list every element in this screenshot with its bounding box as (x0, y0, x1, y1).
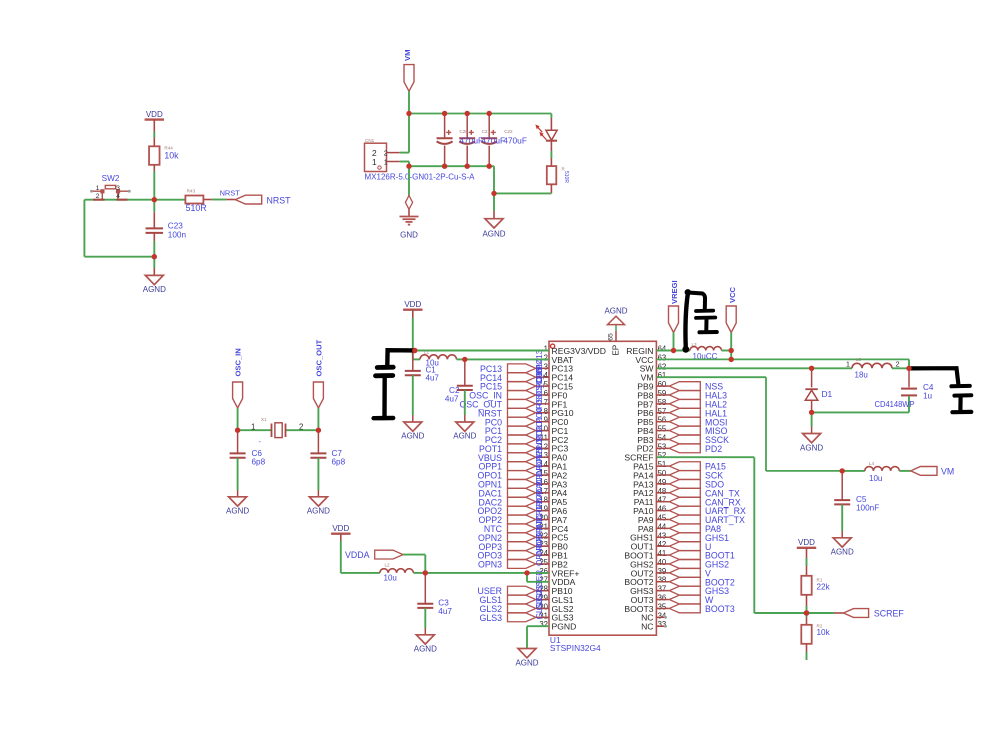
svg-text:OSC_IN: OSC_IN (234, 348, 243, 376)
svg-text:1: 1 (251, 422, 255, 431)
svg-text:3: 3 (116, 185, 120, 192)
svg-text:49: 49 (658, 478, 667, 487)
svg-text:7: 7 (544, 398, 548, 407)
svg-text:GLS3: GLS3 (480, 613, 503, 623)
svg-text:470uF: 470uF (503, 136, 527, 146)
svg-text:4u7: 4u7 (438, 607, 452, 616)
svg-text:OPN3: OPN3 (478, 560, 502, 570)
svg-text:C23: C23 (168, 222, 183, 231)
svg-text:STSPIN32G4: STSPIN32G4 (550, 643, 601, 653)
svg-text:2: 2 (96, 193, 100, 200)
svg-text:VDD: VDD (404, 300, 421, 309)
svg-text:AGND: AGND (482, 229, 505, 238)
svg-text:5: 5 (544, 380, 549, 389)
svg-text:BOOT3: BOOT3 (705, 604, 735, 614)
svg-text:4: 4 (116, 193, 120, 200)
svg-text:22k: 22k (817, 583, 831, 592)
svg-text:AGND: AGND (414, 645, 437, 654)
svg-text:60: 60 (658, 380, 667, 389)
svg-text:59: 59 (658, 389, 667, 398)
svg-text:L6: L6 (856, 357, 862, 362)
svg-text:47: 47 (658, 496, 667, 505)
svg-text:51: 51 (658, 460, 667, 469)
svg-text:510R: 510R (186, 203, 207, 213)
svg-text:18u: 18u (855, 371, 868, 380)
svg-text:56: 56 (658, 416, 667, 425)
svg-text:VM: VM (941, 466, 954, 476)
svg-text:42: 42 (658, 540, 667, 549)
svg-text:C21: C21 (482, 129, 491, 134)
svg-text:AGND: AGND (831, 548, 854, 557)
svg-text:10u: 10u (869, 474, 882, 483)
svg-text:6: 6 (544, 389, 548, 398)
svg-text:34: 34 (658, 611, 667, 620)
svg-text:NRST: NRST (220, 188, 241, 197)
svg-text:AGND: AGND (143, 285, 166, 294)
svg-text:46: 46 (658, 505, 667, 514)
svg-text:100n: 100n (168, 231, 187, 240)
svg-text:PD2: PD2 (705, 444, 722, 454)
svg-text:1: 1 (384, 159, 388, 166)
svg-text:GLS3: GLS3 (535, 598, 544, 619)
svg-text:VCC: VCC (728, 286, 737, 303)
svg-text:37: 37 (658, 585, 667, 594)
svg-text:1: 1 (544, 345, 548, 354)
svg-text:470uF: 470uF (481, 136, 505, 146)
svg-text:AGND: AGND (307, 506, 330, 515)
svg-text:6p8: 6p8 (332, 458, 346, 467)
svg-text:10u: 10u (384, 574, 397, 583)
svg-text:EP: EP (612, 345, 621, 356)
svg-text:2: 2 (384, 150, 388, 157)
svg-text:55: 55 (658, 425, 667, 434)
svg-text:CN1: CN1 (365, 138, 375, 143)
svg-text:2: 2 (299, 422, 303, 431)
svg-text:C6: C6 (252, 449, 263, 458)
svg-text:4u7: 4u7 (445, 395, 459, 404)
svg-text:100nF: 100nF (856, 504, 879, 513)
svg-text:VDD: VDD (146, 110, 163, 119)
svg-text:33: 33 (658, 620, 667, 629)
svg-text:C22: C22 (504, 129, 513, 134)
svg-text:48: 48 (658, 487, 667, 496)
svg-text:1: 1 (96, 185, 100, 192)
svg-text:D1: D1 (822, 389, 833, 399)
svg-text:X1: X1 (261, 417, 267, 422)
svg-text:VDDA: VDDA (345, 550, 370, 560)
svg-text:AGND: AGND (401, 431, 424, 440)
svg-text:MX126R-5.0-GN01-2P-Cu-S-A: MX126R-5.0-GN01-2P-Cu-S-A (365, 172, 476, 181)
svg-text:62: 62 (658, 362, 667, 371)
svg-text:1: 1 (846, 359, 850, 368)
svg-text:L4: L4 (869, 461, 875, 466)
svg-text:NRST: NRST (267, 196, 292, 206)
svg-text:2: 2 (896, 359, 900, 368)
svg-text:40: 40 (658, 558, 667, 567)
svg-text:VREGI: VREGI (670, 280, 679, 304)
svg-text:OSC_OUT: OSC_OUT (314, 339, 323, 376)
svg-text:43: 43 (658, 531, 667, 540)
svg-text:L1: L1 (424, 349, 430, 354)
svg-text:63: 63 (658, 353, 667, 362)
svg-text:10k: 10k (164, 150, 179, 160)
svg-text:61: 61 (658, 371, 667, 380)
svg-text:3: 3 (544, 362, 548, 371)
svg-text:R43: R43 (187, 188, 196, 193)
svg-text:AGND: AGND (226, 506, 249, 515)
svg-text:9: 9 (544, 416, 548, 425)
svg-text:32: 32 (539, 620, 548, 629)
svg-text:L2: L2 (385, 562, 391, 567)
svg-text:AGND: AGND (604, 307, 627, 316)
svg-text:50: 50 (658, 469, 667, 478)
svg-text:57: 57 (658, 407, 667, 416)
svg-text:64: 64 (658, 345, 667, 354)
svg-text:470uF: 470uF (459, 136, 483, 146)
svg-text:510R: 510R (563, 171, 569, 183)
svg-text:58: 58 (658, 398, 667, 407)
svg-text:4u7: 4u7 (426, 374, 440, 383)
svg-text:65: 65 (608, 333, 615, 341)
svg-text:53: 53 (658, 442, 667, 451)
svg-text:6p8: 6p8 (252, 458, 266, 467)
svg-text:AGND: AGND (800, 443, 823, 452)
svg-text:VDD: VDD (332, 524, 349, 533)
svg-text:SCREF: SCREF (874, 609, 904, 619)
svg-text:L3: L3 (692, 342, 698, 347)
svg-text:39: 39 (658, 567, 667, 576)
svg-text:36: 36 (658, 594, 667, 603)
svg-text:1u: 1u (923, 391, 933, 400)
svg-text:OPN3: OPN3 (535, 543, 544, 566)
svg-text:PGND: PGND (552, 622, 577, 632)
svg-text:4: 4 (544, 371, 549, 380)
svg-text:AGND: AGND (453, 431, 476, 440)
svg-text:2: 2 (544, 353, 548, 362)
svg-text:SW2: SW2 (102, 174, 120, 183)
svg-text:C20: C20 (459, 129, 468, 134)
svg-text:GND: GND (400, 231, 418, 240)
svg-text:VDD: VDD (798, 538, 815, 547)
svg-text:R1: R1 (817, 577, 823, 582)
svg-text:52: 52 (658, 451, 667, 460)
svg-text:VM: VM (403, 50, 412, 61)
svg-text:CD4148WP: CD4148WP (875, 399, 915, 409)
svg-text:AGND: AGND (515, 659, 538, 668)
svg-text:44: 44 (658, 522, 667, 531)
svg-text:1: 1 (372, 157, 377, 167)
svg-text:C7: C7 (332, 449, 343, 458)
svg-text:54: 54 (658, 433, 667, 442)
svg-text:NC: NC (641, 622, 653, 632)
svg-text:45: 45 (658, 513, 667, 522)
svg-text:35: 35 (658, 602, 667, 611)
svg-text:8: 8 (544, 407, 548, 416)
svg-text:C5: C5 (856, 495, 867, 504)
svg-text:10k: 10k (817, 628, 831, 637)
svg-text:38: 38 (658, 576, 667, 585)
svg-text:41: 41 (658, 549, 667, 558)
